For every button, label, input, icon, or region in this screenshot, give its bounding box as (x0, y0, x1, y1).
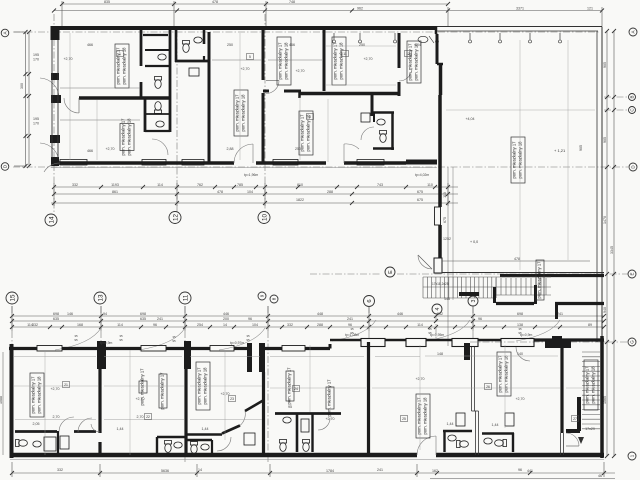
svg-text:95: 95 (119, 338, 123, 342)
svg-text:pom. mieszkalny 18: pom. mieszkalny 18 (122, 47, 127, 85)
svg-text:2,70: 2,70 (137, 415, 144, 419)
svg-text:15: 15 (9, 294, 16, 302)
svg-text:170: 170 (33, 58, 39, 62)
svg-text:11: 11 (343, 52, 347, 56)
svg-text:B: B (630, 95, 635, 98)
svg-text:E: E (388, 270, 394, 274)
svg-text:14: 14 (223, 323, 227, 327)
svg-text:114: 114 (117, 323, 123, 327)
svg-text:pom. mieszkalny 18: pom. mieszkalny 18 (423, 397, 428, 435)
svg-text:241: 241 (347, 317, 353, 321)
svg-text:3371: 3371 (516, 7, 524, 11)
svg-text:46: 46 (598, 474, 602, 478)
svg-text:635: 635 (53, 317, 59, 321)
svg-text:95: 95 (288, 405, 292, 409)
svg-text:22: 22 (146, 415, 150, 419)
svg-text:+2,70: +2,70 (63, 57, 72, 61)
svg-text:96: 96 (248, 317, 252, 321)
svg-text:pom. mieszkalny 18: pom. mieszkalny 18 (414, 43, 419, 81)
svg-text:24: 24 (294, 387, 298, 391)
svg-text:466: 466 (87, 149, 93, 153)
svg-text:96: 96 (518, 468, 522, 472)
svg-text:pom. mieszkalny 18: pom. mieszkalny 18 (203, 367, 208, 405)
svg-text:pom. mieszkalny 17: pom. mieszkalny 17 (31, 376, 36, 414)
svg-text:675: 675 (443, 217, 447, 223)
svg-text:25: 25 (402, 417, 406, 421)
svg-text:810: 810 (297, 183, 303, 187)
svg-text:104: 104 (247, 190, 253, 194)
svg-text:pom. mieszkalny 17: pom. mieszkalny 17 (235, 94, 240, 132)
svg-text:pom. mieszkalny 18: pom. mieszkalny 18 (504, 355, 509, 393)
svg-text:+2,70: +2,70 (295, 69, 304, 73)
svg-text:11: 11 (182, 294, 189, 301)
svg-text:pom. mieszkalny 17: pom. mieszkalny 17 (327, 379, 332, 417)
svg-text:288: 288 (327, 190, 333, 194)
svg-text:+2,70: +2,70 (325, 417, 334, 421)
svg-text:tp=0,95m: tp=0,95m (430, 333, 444, 337)
svg-text:5: 5 (249, 55, 251, 59)
svg-text:13: 13 (97, 294, 104, 302)
svg-text:698: 698 (140, 312, 146, 316)
svg-text:2,88: 2,88 (227, 147, 234, 151)
svg-text:905: 905 (579, 145, 583, 151)
svg-text:785: 785 (237, 183, 243, 187)
svg-text:1088: 1088 (0, 396, 3, 404)
svg-text:743: 743 (377, 183, 383, 187)
svg-text:1,44: 1,44 (492, 423, 499, 427)
svg-text:441: 441 (527, 469, 533, 473)
svg-text:3345: 3345 (610, 246, 614, 254)
svg-text:446: 446 (397, 312, 403, 316)
svg-text:+4,04: +4,04 (465, 117, 474, 121)
svg-text:1193: 1193 (111, 183, 119, 187)
svg-text:tp=0,9m: tp=0,9m (520, 333, 533, 337)
svg-text:pom. mieszkalny 17: pom. mieszkalny 17 (585, 366, 590, 404)
svg-text:168: 168 (77, 323, 83, 327)
svg-text:pom. mieszkalny 17: pom. mieszkalny 17 (121, 118, 126, 156)
svg-text:17x18,2x25: 17x18,2x25 (432, 282, 449, 286)
svg-text:2,05: 2,05 (33, 422, 40, 426)
svg-text:5636: 5636 (161, 469, 169, 473)
svg-text:448: 448 (317, 312, 323, 316)
svg-text:698: 698 (53, 312, 59, 316)
svg-text:1252: 1252 (443, 237, 451, 241)
svg-text:pom. mieszkalny 18: pom. mieszkalny 18 (127, 118, 132, 156)
svg-text:tp=4,02m: tp=4,02m (415, 173, 429, 177)
svg-text:+2,70: +2,70 (220, 392, 229, 396)
svg-text:466: 466 (289, 43, 295, 47)
svg-text:pom. mieszkalny 18: pom. mieszkalny 18 (284, 42, 289, 80)
svg-text:96: 96 (348, 323, 352, 327)
svg-text:762: 762 (197, 183, 203, 187)
svg-text:pom. mieszkalny 17: pom. mieszkalny 17 (333, 42, 338, 80)
svg-text:448: 448 (444, 297, 450, 301)
svg-text:pom. mieszkalny 17: pom. mieszkalny 17 (287, 367, 292, 405)
svg-text:2,70: 2,70 (53, 415, 60, 419)
svg-text:114: 114 (157, 183, 163, 187)
svg-text:pom. mieszkalny 17: pom. mieszkalny 17 (408, 43, 413, 81)
svg-text:241: 241 (377, 468, 383, 472)
svg-text:+2,70: +2,70 (135, 397, 144, 401)
svg-text:148: 148 (437, 352, 443, 356)
svg-text:4: 4 (435, 307, 441, 310)
svg-text:tp=0,9m: tp=0,9m (100, 341, 113, 345)
svg-text:250: 250 (359, 43, 365, 47)
svg-text:195: 195 (33, 117, 39, 121)
svg-text:332: 332 (57, 468, 63, 472)
svg-text:95: 95 (172, 339, 176, 343)
svg-text:104: 104 (415, 43, 421, 47)
svg-text:tp=1,08m: tp=1,08m (345, 333, 359, 337)
svg-text:10: 10 (261, 214, 268, 222)
svg-text:G: G (630, 340, 635, 344)
svg-text:1822: 1822 (296, 198, 304, 202)
svg-text:14: 14 (48, 216, 55, 224)
svg-text:200: 200 (223, 317, 229, 321)
svg-text:835: 835 (104, 0, 110, 4)
svg-text:E: E (630, 272, 635, 275)
svg-text:pom. mieszkalny 17: pom. mieszkalny 17 (278, 42, 283, 80)
svg-text:478: 478 (212, 0, 218, 4)
svg-text:+2,70: +2,70 (105, 147, 114, 151)
svg-text:+2,70: +2,70 (363, 57, 372, 61)
svg-text:tp=1,96m: tp=1,96m (244, 173, 258, 177)
svg-text:+2,70: +2,70 (415, 377, 424, 381)
svg-text:905: 905 (603, 137, 607, 143)
svg-text:12: 12 (172, 214, 179, 222)
svg-text:95: 95 (246, 338, 250, 342)
svg-text:6: 6 (367, 299, 373, 302)
svg-text:861: 861 (112, 190, 118, 194)
svg-text:A: A (631, 30, 636, 33)
svg-text:96: 96 (478, 317, 482, 321)
svg-text:1784: 1784 (326, 469, 334, 473)
svg-text:1470: 1470 (603, 216, 607, 224)
svg-text:pom. mieszkalny 18: pom. mieszkalny 18 (241, 94, 246, 132)
svg-text:446: 446 (223, 312, 229, 316)
svg-text:121: 121 (587, 7, 593, 11)
svg-text:352: 352 (437, 312, 443, 316)
svg-text:114: 114 (417, 323, 423, 327)
svg-text:140: 140 (517, 352, 523, 356)
svg-text:13: 13 (406, 52, 410, 56)
svg-text:95: 95 (74, 338, 78, 342)
svg-text:635: 635 (140, 317, 146, 321)
svg-text:3: 3 (471, 299, 477, 302)
svg-text:300: 300 (20, 83, 24, 89)
svg-text:pom. mieszkalny 17: pom. mieszkalny 17 (197, 367, 202, 405)
svg-text:+ 1,21: + 1,21 (554, 148, 566, 153)
svg-text:+2,70: +2,70 (50, 387, 59, 391)
svg-text:14: 14 (198, 468, 202, 472)
svg-text:27: 27 (573, 417, 577, 421)
svg-text:+2,70: +2,70 (515, 397, 524, 401)
svg-text:146: 146 (67, 312, 73, 316)
svg-text:288: 288 (317, 323, 323, 327)
svg-text:104: 104 (252, 323, 258, 327)
svg-text:89: 89 (588, 323, 592, 327)
svg-text:940: 940 (603, 307, 607, 313)
svg-text:21: 21 (64, 383, 68, 387)
svg-text:748: 748 (289, 0, 295, 4)
svg-text:195: 195 (33, 53, 39, 57)
svg-text:466: 466 (87, 43, 93, 47)
svg-text:23: 23 (230, 397, 234, 401)
svg-text:pom. mieszkalny 18: pom. mieszkalny 18 (591, 366, 596, 404)
svg-text:254: 254 (197, 323, 203, 327)
svg-text:pom. mieszkalny 17: pom. mieszkalny 17 (300, 114, 305, 152)
svg-text:A: A (3, 31, 8, 34)
svg-text:8: 8 (309, 115, 311, 119)
svg-text:tp=0,97m: tp=0,97m (230, 341, 244, 345)
svg-text:905: 905 (603, 62, 607, 68)
svg-text:170: 170 (33, 122, 39, 126)
svg-text:250: 250 (295, 147, 301, 151)
svg-text:332: 332 (32, 323, 38, 327)
svg-text:pom. mieszkalny 17: pom. mieszkalny 17 (512, 141, 517, 179)
svg-text:17x29: 17x29 (585, 427, 595, 431)
svg-text:94: 94 (103, 312, 107, 316)
svg-text:1,44: 1,44 (202, 427, 209, 431)
svg-text:675: 675 (417, 190, 423, 194)
svg-text:pom. mieszkalny 17: pom. mieszkalny 17 (160, 372, 165, 410)
svg-text:162: 162 (432, 469, 438, 473)
svg-text:1: 1 (119, 52, 121, 56)
svg-text:250: 250 (227, 43, 233, 47)
svg-text:pom. mieszkalny 18: pom. mieszkalny 18 (37, 376, 42, 414)
svg-text:332: 332 (287, 323, 293, 327)
svg-text:+2,70: +2,70 (240, 67, 249, 71)
svg-text:332: 332 (72, 183, 78, 187)
svg-text:+ 0,0: + 0,0 (470, 240, 478, 244)
svg-text:pom. mieszkalny 17: pom. mieszkalny 17 (498, 355, 503, 393)
svg-text:962: 962 (357, 7, 363, 11)
svg-text:1,44: 1,44 (447, 422, 454, 426)
svg-text:1,44: 1,44 (117, 427, 124, 431)
svg-text:96: 96 (153, 323, 157, 327)
svg-text:110: 110 (443, 192, 447, 198)
svg-text:pom. mieszkalny 17: pom. mieszkalny 17 (417, 397, 422, 435)
svg-text:pom. mieszkalny 18: pom. mieszkalny 18 (339, 42, 344, 80)
svg-text:675: 675 (417, 198, 423, 202)
svg-text:698: 698 (517, 312, 523, 316)
svg-text:110: 110 (427, 183, 433, 187)
svg-text:26: 26 (486, 385, 490, 389)
svg-text:pom. mieszkalny 17: pom. mieszkalny 17 (537, 261, 542, 299)
svg-text:478: 478 (217, 190, 223, 194)
svg-text:241: 241 (157, 317, 163, 321)
svg-text:478: 478 (514, 257, 520, 261)
